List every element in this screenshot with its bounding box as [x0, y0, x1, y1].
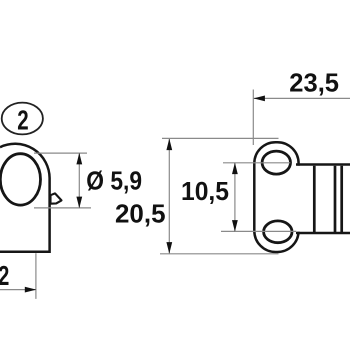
dimension line 20,5	[168, 139, 170, 254]
dimension line 23,5	[254, 97, 350, 99]
arrow 10,5 down	[232, 220, 238, 232]
tab detail on right edge of side view	[51, 193, 62, 203]
hole (left side view)	[0, 154, 40, 205]
arrow 23,5 left	[253, 96, 265, 102]
extension line top of dia 5,9	[34, 152, 87, 154]
svg-text:23,5: 23,5	[289, 68, 339, 98]
flange plate (right front view)	[254, 142, 298, 252]
extension line of 2	[35, 253, 37, 299]
extension line top of 10,5	[223, 162, 290, 164]
cylinder body bottom edge	[296, 232, 350, 235]
arrow 10,5 up	[232, 163, 238, 175]
extension line bottom of dia 5,9	[34, 207, 91, 209]
dimension line 10,5	[234, 163, 236, 231]
upper flange hole	[262, 151, 290, 174]
svg-text:20,5: 20,5	[115, 198, 166, 228]
svg-text:10,5: 10,5	[181, 176, 229, 206]
cylinder ring line 3	[340, 166, 343, 232]
arrow dia 5,9 down	[76, 197, 82, 209]
arrow 20,5 up	[166, 139, 172, 151]
svg-text:2: 2	[0, 260, 9, 291]
extension line top of 20,5	[162, 137, 279, 139]
extension line bottom of 10,5	[221, 230, 296, 232]
cylinder ring line 2	[334, 166, 337, 232]
cylinder ring line 1	[313, 166, 316, 232]
balloon callout 2	[2, 103, 43, 135]
cylinder body fill (right view)	[294, 166, 350, 232]
lower flange hole	[264, 221, 292, 243]
part body (left side view) outer contour	[0, 144, 50, 252]
extension line bottom of 20,5	[160, 253, 279, 255]
svg-text:2: 2	[17, 104, 28, 135]
arrow 2 right	[25, 287, 37, 293]
cylinder body top edge	[296, 163, 350, 166]
dimension line 2	[0, 289, 36, 291]
arrow dia 5,9 up	[76, 153, 82, 165]
extension line left of 23,5	[252, 90, 254, 146]
svg-text:Ø 5,9: Ø 5,9	[86, 166, 142, 196]
dimension line dia 5,9	[78, 153, 80, 207]
arrow 20,5 down	[166, 242, 172, 254]
